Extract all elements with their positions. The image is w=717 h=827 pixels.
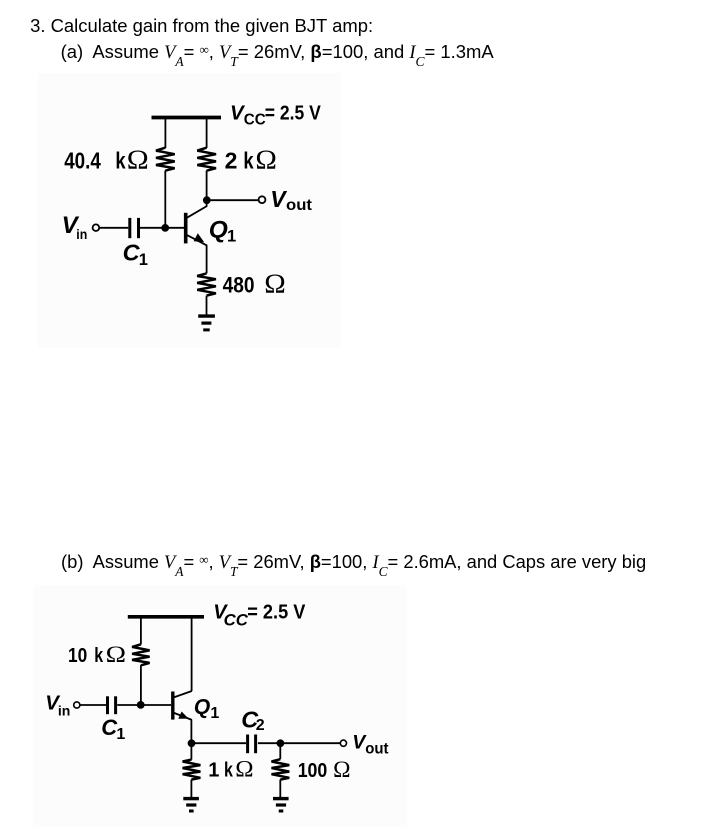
- line (b): [61, 551, 646, 573]
- transistor Q1 base bar: [184, 213, 188, 244]
- capacitor C1 wires: [99, 227, 128, 229]
- capacitor C2 plates: [246, 735, 249, 754]
- wire out node to Vout terminal: [280, 742, 340, 744]
- svg-text:1: 1: [210, 705, 219, 722]
- title line: [30, 15, 373, 37]
- wire rail to R2: [206, 118, 208, 148]
- svg-text:k: k: [115, 148, 125, 174]
- svg-text:Ω: Ω: [235, 757, 253, 782]
- ground (a): [198, 314, 215, 317]
- svg-text:out: out: [286, 197, 312, 214]
- emitter vertical (b): [190, 720, 192, 744]
- transistor Q1b base bar: [171, 692, 174, 720]
- svg-text:Q: Q: [194, 695, 210, 718]
- svg-text:2: 2: [225, 148, 238, 174]
- collector wire from rail: [191, 618, 193, 691]
- svg-text:Q: Q: [209, 216, 228, 243]
- svg-text:Ω: Ω: [106, 642, 126, 668]
- input terminal circle (b): [74, 702, 80, 708]
- base wire: [165, 227, 184, 229]
- capacitor C1b plates: [106, 696, 109, 714]
- svg-text:100: 100: [298, 760, 328, 782]
- emitter arrow (a): [194, 233, 205, 242]
- wire RB to base node: [140, 665, 142, 705]
- wire emitter node to C2: [191, 742, 246, 744]
- node dot emitter (b): [188, 739, 196, 747]
- svg-text:= 2.5 V: = 2.5 V: [265, 102, 322, 124]
- collector diagonal: [187, 206, 207, 218]
- svg-text:1: 1: [116, 726, 125, 743]
- emitter vertical down to RE: [206, 245, 208, 273]
- svg-text:k: k: [94, 645, 104, 667]
- svg-text:V: V: [270, 186, 287, 212]
- svg-text:Ω: Ω: [255, 145, 277, 175]
- emitter diagonal (b): [174, 713, 192, 720]
- ground right (b): [273, 797, 289, 800]
- svg-text:= 2.5 V: = 2.5 V: [247, 602, 306, 624]
- svg-text:CC: CC: [224, 611, 249, 630]
- collector vertical: [206, 200, 208, 206]
- svg-text:Ω: Ω: [333, 757, 350, 782]
- node dot base (a): [161, 224, 169, 232]
- image background (a): [38, 73, 341, 348]
- wire collector node to Vout terminal: [207, 199, 259, 201]
- ground left (b): [183, 797, 199, 800]
- resistor RE 480 zigzag: [197, 273, 216, 295]
- node dot collector (a): [203, 196, 211, 204]
- output terminal circle (b): [340, 740, 346, 746]
- emitter arrow (b): [178, 712, 188, 719]
- svg-text:k: k: [243, 148, 253, 174]
- resistor RB 10k zigzag: [132, 644, 150, 665]
- resistor 1k zigzag: [183, 760, 201, 780]
- svg-text:CC: CC: [244, 112, 266, 129]
- node dot out (b): [277, 739, 285, 747]
- svg-text:10: 10: [68, 645, 87, 667]
- wire RE to ground: [206, 296, 208, 315]
- wire R1 to base node: [164, 171, 166, 228]
- input terminal circle (a): [93, 224, 100, 231]
- svg-text:1: 1: [208, 760, 219, 782]
- node dot base (b): [137, 701, 145, 709]
- VCC rail: [152, 116, 222, 120]
- base wire (b): [141, 704, 171, 706]
- image background (b): [33, 585, 407, 827]
- svg-text:Ω: Ω: [264, 269, 286, 299]
- line (a): [61, 41, 494, 63]
- svg-text:1: 1: [227, 227, 236, 245]
- svg-text:k: k: [224, 760, 234, 782]
- svg-text:480: 480: [223, 273, 255, 298]
- junction dots and terminals: [137, 196, 284, 747]
- wire rail to RB: [140, 618, 142, 645]
- wire R2 to collector node: [206, 171, 208, 201]
- wire 1k to ground: [190, 780, 192, 798]
- svg-text:in: in: [58, 702, 70, 718]
- svg-text:out: out: [365, 741, 388, 758]
- svg-text:Ω: Ω: [127, 144, 149, 174]
- emitter diagonal: [187, 235, 207, 246]
- wire rail to R1: [164, 118, 166, 148]
- output terminal circle (a): [259, 196, 266, 203]
- wire out node down to R100: [279, 743, 281, 759]
- resistor 100 zigzag: [272, 759, 290, 779]
- VCC rail: [128, 615, 204, 619]
- svg-text:40.4: 40.4: [64, 148, 101, 174]
- svg-text:2: 2: [256, 717, 265, 734]
- svg-text:in: in: [76, 226, 87, 242]
- wire 100 to ground: [279, 780, 281, 798]
- collector diagonal (b): [174, 691, 192, 697]
- wire emitter node down to R1k: [190, 743, 192, 760]
- capacitor C1 plates: [128, 218, 131, 238]
- resistor R2 2k zigzag: [197, 148, 216, 171]
- wire C2 to out node: [258, 742, 280, 744]
- svg-text:1: 1: [139, 251, 148, 269]
- resistor R1 40.4k zigzag: [156, 148, 175, 171]
- capacitor C1b wires: [80, 704, 106, 706]
